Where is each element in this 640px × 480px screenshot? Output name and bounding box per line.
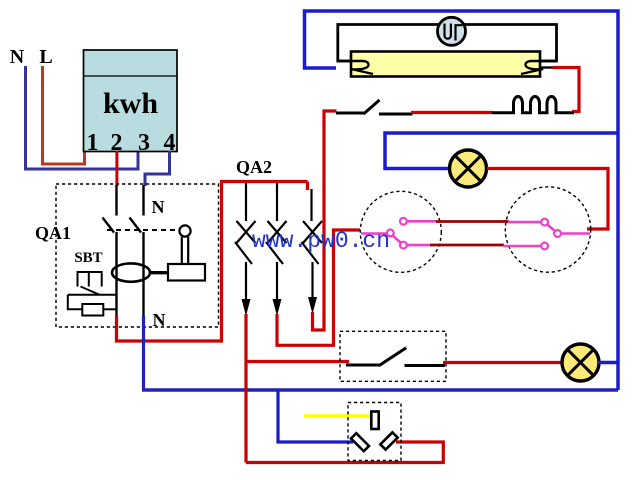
wire tube right to ballast: [553, 68, 580, 112]
wire QA2 pole3 to fluorescent switch: [313, 111, 337, 330]
live wire to socket: [246, 442, 443, 464]
wire incoming L to meter terminal 1: [43, 66, 85, 164]
svg-text:SBT: SBT: [74, 250, 102, 266]
RCD QA1 enclosure (dashed): [56, 184, 219, 327]
wire QA2 pole1 to lamp switch and socket: [246, 314, 349, 463]
fluorescent switch SA1: [336, 100, 413, 114]
earth wire to socket: [304, 414, 371, 418]
QA1 pole 2 switch blade: [130, 218, 142, 233]
QA1 pole 1 switch blade: [103, 218, 115, 233]
blue loop to fluorescent tube left: [305, 11, 619, 390]
QA1 toroid to trip coil link: [150, 271, 168, 274]
fluorescent tube EL1: [351, 52, 540, 77]
test button SBT contact blade: [81, 287, 100, 295]
lamp EL2 (two-way controlled): [450, 150, 487, 187]
fluorescent frame and starter legs: [338, 25, 557, 62]
wire meter terminal 4 to QA1 pole 2: [145, 151, 170, 186]
svg-text:QA2: QA2: [236, 157, 272, 177]
tube left filament: [338, 61, 373, 74]
svg-text:www.pw0.cn: www.pw0.cn: [252, 228, 390, 254]
QA2 pole 2: [266, 183, 287, 316]
test button SBT actuator: [78, 272, 102, 287]
QA1 pole 2 conductor: [142, 185, 144, 317]
svg-text:1: 1: [87, 130, 99, 156]
test circuit wire left: [68, 295, 83, 310]
test circuit wire right: [103, 308, 117, 310]
QA1 trip plunger: [182, 237, 188, 264]
wire switch SA4 to lamp EL3: [443, 361, 563, 364]
switch SA2 enclosure (dashed circle left): [360, 191, 441, 272]
socket neutral pin: [351, 433, 369, 451]
two-way switch SA3 (right): [503, 219, 590, 250]
tube right filament: [521, 61, 557, 74]
two-way lamp blue feed: [385, 133, 618, 169]
wire QA2 pole2 to two-way switch common: [277, 230, 360, 345]
switch SA3 enclosure (dashed circle right): [505, 187, 590, 272]
svg-text:N: N: [153, 310, 166, 330]
QA1 trip coil box: [168, 264, 205, 281]
traveller wire lower: [430, 244, 504, 247]
wire meter terminal 2 to QA1 pole 1: [115, 151, 118, 186]
QA2 pole 1: [235, 183, 256, 316]
svg-text:N: N: [152, 197, 165, 217]
svg-text:N: N: [10, 46, 25, 68]
QA1 trip knob circle: [179, 225, 190, 236]
wire switch to ballast: [411, 111, 493, 114]
test resistor: [82, 304, 103, 316]
kWh meter M1: [84, 50, 178, 152]
svg-text:QA1: QA1: [35, 223, 71, 243]
two-way switch SA2 (left): [361, 218, 437, 249]
lamp switch SA4 enclosure (dashed): [340, 331, 446, 381]
QA1 toroidal current transformer: [112, 263, 150, 281]
QA2 supply bus: [220, 182, 308, 191]
QA1 pole 1 conductor: [115, 185, 117, 317]
svg-text:L: L: [39, 46, 52, 68]
lamp switch SA4: [346, 348, 445, 366]
lamp EL3 neutral stub: [598, 361, 618, 365]
socket XS1 enclosure (dashed): [348, 403, 401, 461]
svg-text:3: 3: [138, 130, 150, 156]
wire QA1 pole2 output N: [142, 316, 145, 390]
starter S1: [438, 17, 466, 45]
lamp EL3 (bottom): [562, 344, 599, 381]
wire QA1 pole1 output to QA2 bus: [117, 182, 222, 342]
wire lamp EL2 to switch SA2 common: [487, 169, 608, 230]
wire incoming N to meter terminal 3: [26, 66, 139, 169]
tube right pin to ballast drop: [540, 66, 553, 68]
socket live pin: [380, 432, 397, 449]
neutral bus horizontal N: [142, 388, 618, 392]
traveller wire upper: [436, 220, 509, 223]
test circuit wire upper: [68, 294, 117, 296]
neutral branch to socket: [278, 390, 353, 442]
QA2 pole 3: [302, 189, 323, 314]
socket earth pin: [371, 412, 378, 430]
ballast inductor L1: [492, 97, 574, 113]
svg-text:kwh: kwh: [103, 87, 158, 120]
QA1 trip linkage (dashed): [107, 229, 177, 231]
